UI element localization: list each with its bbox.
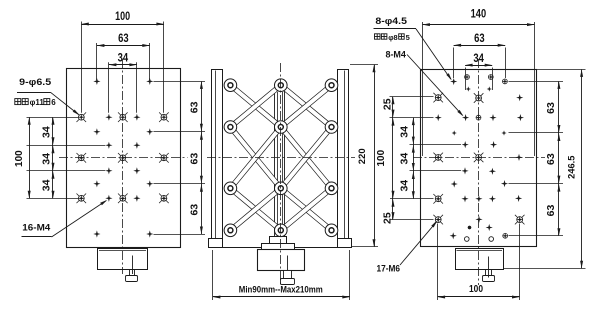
middle view: pin joints [224,79,237,92]
middle view: knob screw [287,256,289,279]
right view: extension lines for top dimensions [422,22,424,156]
right view: dimension 100 (bottom) [438,296,520,298]
left view: dimension 100 (top) [81,24,164,26]
svg-text:φ8: φ8 [388,33,398,42]
middle view: knob step small [270,237,287,244]
right view: extension lines for left chains [390,96,434,98]
left view: chain dimension 63/63/63 [201,81,203,234]
left view: top platform plate outline [67,69,181,248]
svg-text:Min90mm--Max210mm: Min90mm--Max210mm [239,285,323,296]
middle view: bottom platform edge line [210,247,351,249]
svg-text:34: 34 [41,126,53,138]
svg-text:63: 63 [545,205,557,217]
left view: horizontal centerline [59,157,188,159]
svg-text:63: 63 [188,101,200,113]
middle view: vertical centerline [280,63,282,285]
svg-text:140: 140 [471,7,487,21]
svg-text:16-M4: 16-M4 [22,222,51,233]
left view: dimension 63 (top) [97,45,150,47]
svg-text:8-M4: 8-M4 [385,49,406,59]
right view: dimension 34 (top) [465,65,492,67]
svg-text:25: 25 [382,98,394,110]
left view: adjustment screw [132,256,134,275]
left view: overall dimension 100 (left) [29,117,31,198]
right view: M4/M6 threaded holes [450,78,457,85]
svg-text:34: 34 [399,153,411,165]
right view: label CJK (countersink phi8 depth5) [375,34,381,39]
right view: dimension 63 (top) [454,45,506,47]
svg-text:34: 34 [399,180,411,192]
svg-text:34: 34 [399,126,411,138]
middle view: knob cylinder [258,250,305,271]
svg-text:100: 100 [469,283,483,295]
middle view: right column [338,70,349,239]
svg-text:17-M6: 17-M6 [377,264,401,274]
left view: label CJK (countersink phi11 depth6) [15,99,21,105]
right view: extension lines for right chain [509,81,564,83]
left view: extension lines for left chain [27,117,79,119]
right view: vertical centerline [478,59,480,285]
middle view: left column [212,70,223,239]
left view: chain dimension 34/34/34 [52,117,54,198]
middle view: horizontal centerline [207,157,355,159]
right view: small threaded holes [466,86,471,91]
right view: chain dimension 34/34/34 [413,118,415,199]
left view: 16 M4 threaded holes [93,78,100,85]
left view: dimension 34 (top) [109,64,137,66]
svg-text:34: 34 [41,179,53,191]
svg-text:246.5: 246.5 [566,156,576,179]
svg-text:25: 25 [382,212,394,224]
right view: small countersunk holes [464,74,470,80]
svg-text:100: 100 [115,9,130,23]
middle view: dimension 220 extension lines [350,64,378,66]
middle view: left foot [209,239,223,248]
left view: pedestal base [98,249,148,270]
right view: small plain holes [465,237,470,242]
svg-text:100: 100 [14,150,25,167]
right view: dimension 100 (bottom) extension lines [437,224,439,301]
middle view: travel dimension line [212,250,214,300]
left view: 9 countersunk holes phi6.5 [78,114,85,121]
svg-text:63: 63 [188,204,200,216]
left view: extension lines for right chain [154,81,206,83]
right view: chain 25/100/25 [392,97,394,220]
right view: dimension 140 (top) [422,24,534,26]
svg-text:63: 63 [118,31,129,45]
svg-text:220: 220 [357,148,368,164]
right view: adjustment screw [488,257,490,278]
middle view: knob step wide [262,244,295,250]
svg-text:6: 6 [51,98,56,107]
svg-text:φ11: φ11 [30,98,45,107]
left view: vertical centerline [122,59,124,274]
svg-text:63: 63 [545,153,557,165]
middle view: scissor arms [230,85,280,127]
right view: horizontal centerline [413,157,545,159]
right view: dimension 246.5 [581,69,583,268]
svg-text:63: 63 [545,102,557,114]
svg-text:5: 5 [406,33,410,42]
svg-text:34: 34 [118,51,129,65]
right view: top platform plate outline [421,70,537,247]
svg-text:8-φ4.5: 8-φ4.5 [375,16,407,26]
right view: overall height extension lines [537,69,586,71]
right view: chain dimension 63/63/63 (right) [558,81,560,235]
left view: extension lines for top dimensions [81,22,83,113]
svg-text:63: 63 [474,31,485,45]
svg-text:9-φ6.5: 9-φ6.5 [19,77,52,88]
middle view: central screw housing [275,91,285,239]
svg-text:100: 100 [376,149,387,166]
middle view: dimension 220 [374,65,376,247]
middle view: right foot [338,239,352,248]
svg-text:63: 63 [188,153,200,165]
svg-text:34: 34 [41,153,53,165]
right view: pedestal base [456,249,504,270]
svg-text:34: 34 [473,51,484,65]
right view: countersunk holes [435,94,442,101]
